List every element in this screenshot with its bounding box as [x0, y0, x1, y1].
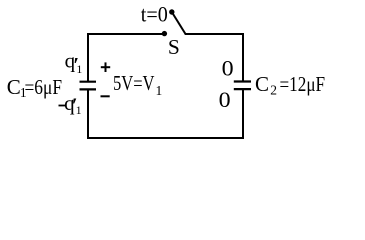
polarity minus stroke: [101, 95, 110, 97]
wire left vertical lower (bottom rail to C1 bottom): [87, 89, 89, 139]
wire top-left (C1 top to switch left contact): [88, 34, 164, 81]
switch open-end dot: [169, 9, 174, 14]
svg-text:1: 1: [156, 83, 163, 98]
svg-text:0: 0: [222, 56, 234, 81]
svg-text:C: C: [255, 72, 269, 96]
polarity plus horizontal stroke: [101, 66, 110, 68]
wire top-right (switch to C2 top): [185, 34, 243, 81]
svg-text:t=0: t=0: [141, 1, 168, 26]
capacitor C1 top plate: [80, 81, 97, 83]
switch left contact dot: [162, 31, 167, 36]
wire bottom rail: [87, 137, 244, 139]
capacitor C1 bottom plate: [80, 88, 97, 90]
svg-text:C: C: [7, 75, 21, 99]
svg-text:1: 1: [76, 103, 82, 117]
svg-text:1: 1: [76, 62, 82, 76]
label minus sign of -q: [59, 105, 66, 107]
capacitor C2 top plate: [234, 80, 251, 82]
switch arm: [172, 12, 186, 34]
polarity plus vertical stroke: [105, 62, 107, 72]
svg-text:=6μF: =6μF: [25, 75, 63, 99]
svg-text:0: 0: [219, 87, 231, 112]
capacitor C2 bottom plate: [234, 88, 251, 90]
wire right vertical lower (C2 bottom to bottom rail): [242, 89, 244, 138]
svg-text:2: 2: [270, 82, 277, 97]
svg-text:5V=V: 5V=V: [113, 71, 155, 95]
svg-text:=12μF: =12μF: [280, 72, 326, 96]
svg-text:S: S: [168, 35, 180, 59]
